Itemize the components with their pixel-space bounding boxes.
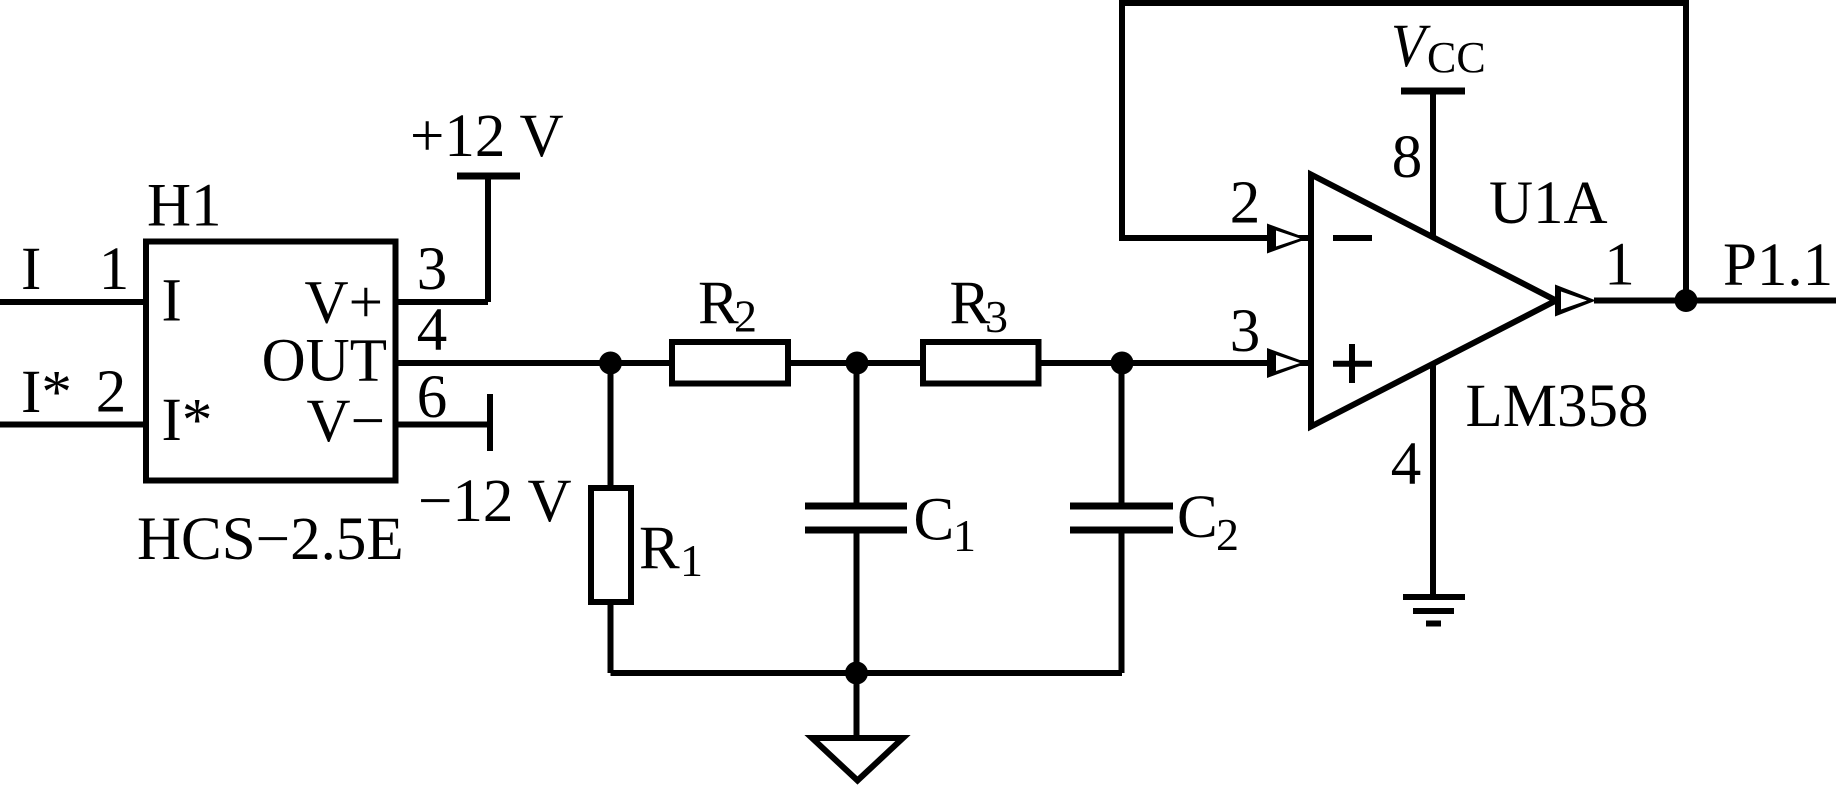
svg-text:V−: V− xyxy=(307,388,385,455)
svg-text:OUT: OUT xyxy=(262,328,387,395)
svg-text:1: 1 xyxy=(99,236,130,303)
svg-text:I: I xyxy=(21,236,41,303)
svg-text:H1: H1 xyxy=(147,173,222,240)
svg-text:C: C xyxy=(1177,484,1218,551)
svg-text:P1.1: P1.1 xyxy=(1723,232,1833,299)
svg-text:LM358: LM358 xyxy=(1466,373,1649,440)
svg-text:1: 1 xyxy=(953,510,976,561)
svg-text:3: 3 xyxy=(1230,298,1261,365)
svg-text:U1A: U1A xyxy=(1489,170,1608,237)
svg-text:V+: V+ xyxy=(305,270,383,337)
svg-text:3: 3 xyxy=(985,291,1008,342)
svg-text:4: 4 xyxy=(417,297,448,364)
svg-text:1: 1 xyxy=(1604,232,1635,299)
svg-text:4: 4 xyxy=(1391,431,1422,498)
svg-text:I: I xyxy=(162,268,182,335)
svg-text:R: R xyxy=(639,515,680,582)
svg-text:6: 6 xyxy=(417,364,448,431)
svg-text:R: R xyxy=(698,270,739,337)
svg-text:1: 1 xyxy=(680,535,703,586)
svg-text:HCS−2.5E: HCS−2.5E xyxy=(137,506,404,573)
svg-text:2: 2 xyxy=(1216,509,1239,560)
svg-text:−12 V: −12 V xyxy=(418,468,572,535)
svg-text:2: 2 xyxy=(734,291,757,342)
svg-text:V: V xyxy=(1391,12,1431,80)
svg-text:CC: CC xyxy=(1427,33,1486,82)
svg-text:I*: I* xyxy=(162,387,213,454)
svg-text:2: 2 xyxy=(1230,170,1261,237)
svg-text:2: 2 xyxy=(96,359,127,426)
svg-text:I*: I* xyxy=(21,359,72,426)
svg-text:C: C xyxy=(914,487,955,554)
svg-text:+12 V: +12 V xyxy=(410,103,564,170)
svg-text:3: 3 xyxy=(417,236,448,303)
svg-text:8: 8 xyxy=(1392,124,1423,191)
